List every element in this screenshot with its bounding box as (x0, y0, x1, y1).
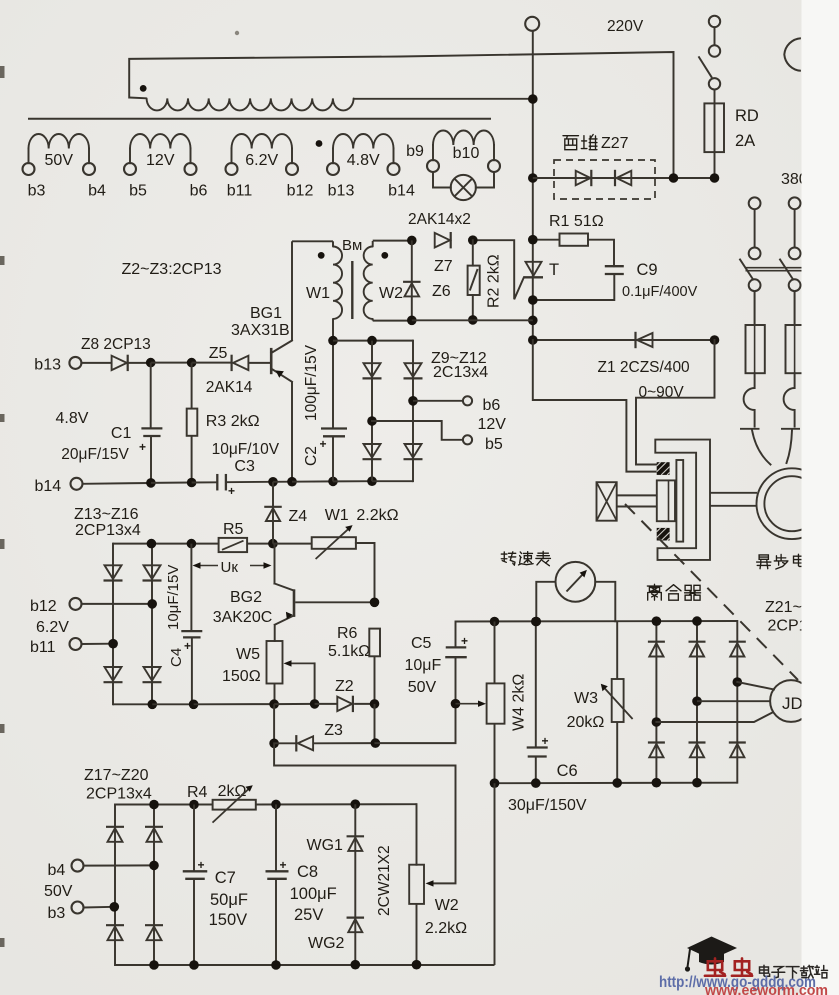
svg-text:+: + (542, 734, 549, 748)
wire clutch supply B (636, 340, 715, 465)
wire field bottom rail (495, 782, 738, 785)
node C5/W4 wiper (451, 699, 461, 709)
svg-text:+: + (184, 639, 191, 653)
power transformer B primary winding (129, 52, 673, 176)
right margin (802, 0, 839, 995)
motor lead curves (752, 430, 771, 465)
svg-text:+: + (228, 484, 235, 498)
wire base row (151, 362, 192, 364)
svg-text:2AK14x2: 2AK14x2 (408, 211, 471, 228)
fuse RD 2A (714, 90, 716, 179)
wire long vertical to bottom rail (494, 783, 496, 965)
motor lead bars (740, 428, 760, 430)
svg-text:20μF/15V: 20μF/15V (61, 446, 129, 463)
node W5 bottom (269, 699, 279, 709)
svg-text:150Ω: 150Ω (222, 668, 261, 685)
220V supply terminal (525, 17, 539, 31)
svg-text:W1: W1 (306, 285, 330, 302)
svg-text:BG2: BG2 (230, 589, 262, 606)
node R3 top (187, 358, 197, 368)
svg-text:10μF/10V: 10μF/10V (212, 441, 280, 458)
svg-text:b4: b4 (48, 862, 66, 879)
node W5 wiper return (310, 699, 320, 709)
svg-text:b11: b11 (30, 639, 56, 656)
node Z6 bottom (407, 316, 417, 326)
svg-text:W4 2kΩ: W4 2kΩ (511, 674, 528, 731)
pilot lamp (433, 172, 451, 188)
svg-text:b6: b6 (483, 397, 501, 414)
node Z27 right junction (669, 173, 679, 183)
capacitor C2 100uF/15V (332, 341, 334, 429)
capacitor C7 50uF/150V (193, 805, 195, 872)
wire bottom top rail (115, 804, 213, 806)
svg-text:2.2kΩ: 2.2kΩ (425, 920, 467, 937)
svg-text:Z4: Z4 (289, 508, 308, 525)
diode Z5 2AK14 (points left) (231, 355, 233, 371)
wire regulator bottom rail (113, 703, 152, 705)
svg-text:b6: b6 (190, 183, 208, 200)
wire to b6 (413, 400, 463, 402)
node Z2 cathode / R6 bottom (370, 699, 380, 709)
transformer core (28, 118, 491, 120)
svg-text:2.2kΩ: 2.2kΩ (356, 507, 398, 524)
BG2 base wire (295, 601, 374, 603)
node R5 right / Z4 bottom (268, 539, 278, 549)
rectifier Z13-Z16 left column (112, 544, 114, 705)
rectifier Z21 column 3 (736, 621, 738, 783)
diode Z8 (points right) (81, 362, 111, 364)
node Z1 right on fuse line (710, 335, 720, 345)
rectifier Z9-Z12 right column (412, 341, 414, 482)
svg-text:b5: b5 (485, 436, 503, 453)
clutch inner plate (676, 460, 683, 542)
svg-text:Z2~Z3:2CP13: Z2~Z3:2CP13 (122, 261, 222, 278)
mains switch K (709, 16, 720, 27)
node meter left (532, 617, 542, 627)
svg-text:b14: b14 (388, 183, 415, 200)
wire 220V vertical main line (532, 31, 534, 340)
thyristor T (526, 262, 542, 276)
svg-text:0.1μF/400V: 0.1μF/400V (622, 284, 698, 300)
svg-text:Uк: Uк (221, 559, 239, 576)
capacitor C6 30uF/150V (535, 622, 537, 748)
svg-text:C4: C4 (168, 648, 185, 667)
svg-text:4.8V: 4.8V (347, 152, 380, 169)
rectifier Z21 column 2 (696, 621, 698, 783)
label 异步电(动机) (757, 555, 771, 569)
svg-text:b10: b10 (453, 145, 480, 162)
svg-text:+: + (280, 858, 287, 872)
asynchronous motor (double circle) (757, 468, 828, 539)
rectifier Z13-Z16 right column (151, 544, 153, 705)
node bridge left top (367, 336, 377, 346)
svg-text:12V: 12V (478, 416, 507, 433)
node Z4 top (268, 477, 278, 487)
zener WG1 (points up) (354, 804, 356, 965)
svg-text:C6: C6 (557, 762, 578, 780)
svg-text:2CP13x4: 2CP13x4 (75, 522, 141, 539)
svg-text:50μF: 50μF (210, 891, 248, 909)
node fuse junction (710, 173, 720, 183)
watermark 虫虫 red (705, 958, 725, 975)
secondary winding 4.8V (b13-b14) (327, 163, 339, 175)
wire Z3 row to C5 column (375, 704, 455, 743)
watermark 电子下载站 (760, 965, 770, 976)
primary phase dot (140, 85, 147, 92)
svg-text:4.8V: 4.8V (56, 410, 89, 427)
svg-text:WG1: WG1 (307, 837, 344, 854)
svg-text:b4: b4 (88, 183, 106, 200)
oscillator transformer core (351, 261, 353, 319)
svg-text:Z21~: Z21~ (765, 599, 802, 616)
svg-text:50V: 50V (44, 883, 73, 900)
svg-text:T: T (549, 261, 559, 279)
svg-text:25V: 25V (294, 906, 323, 924)
capacitor C5 10uF 50V (455, 657, 457, 704)
svg-text:Z2: Z2 (335, 678, 354, 695)
wire bridge top rail to R5 (113, 543, 219, 545)
rectifier Z17-Z20 left column (114, 805, 116, 966)
clutch outer bracket (655, 440, 710, 560)
svg-text:C5: C5 (411, 635, 432, 652)
motor JD circle (770, 680, 812, 722)
svg-text:R4: R4 (187, 784, 208, 801)
svg-text:2kΩ: 2kΩ (218, 783, 247, 800)
zener Z4 (points up) (272, 482, 274, 544)
clutch armature block (657, 480, 675, 521)
indicator circle cut at margin (784, 38, 801, 71)
svg-text:b12: b12 (30, 598, 57, 615)
svg-text:+: + (198, 858, 205, 872)
wire meter top rail (456, 620, 738, 623)
node 12V ac right (408, 396, 418, 406)
svg-text:C3: C3 (234, 458, 255, 475)
motor shaft (710, 492, 757, 494)
selenium stack Z27 dashed box (554, 160, 655, 199)
secondary winding b10 with pilot lamp (427, 160, 439, 172)
svg-text:b11: b11 (227, 183, 253, 200)
wire bridge top rail (333, 340, 413, 342)
resistor R3 2kΩ (191, 363, 193, 409)
svg-text:2CP13x4: 2CP13x4 (86, 786, 152, 803)
watermark graduation cap logo (687, 937, 737, 960)
svg-text:JD: JD (782, 694, 803, 713)
svg-text:2CW21X2: 2CW21X2 (376, 845, 393, 916)
svg-text:b3: b3 (28, 183, 46, 200)
svg-text:Z17~Z20: Z17~Z20 (84, 767, 149, 784)
svg-text:b3: b3 (48, 905, 66, 922)
node Z3 right (371, 738, 381, 748)
node b11 junction (108, 639, 118, 649)
Z27 diode left (points right) (576, 171, 591, 185)
svg-text:W1: W1 (325, 507, 349, 524)
svg-text:2C13x4: 2C13x4 (433, 364, 488, 381)
svg-text:150V: 150V (209, 911, 248, 929)
svg-text:Z1 2CZS/400: Z1 2CZS/400 (598, 359, 691, 376)
svg-text:2AK14: 2AK14 (206, 379, 253, 396)
tach generator box (597, 482, 617, 521)
node C8 top (271, 800, 281, 810)
BG1 collector wire down (291, 382, 293, 482)
node col B top (147, 539, 157, 549)
svg-text:Z13~Z16: Z13~Z16 (74, 506, 139, 523)
wire wiper feedback to W2 (274, 743, 455, 883)
Z27 diode right (points left) (614, 170, 616, 186)
node W4 top (490, 617, 500, 627)
node C2 bottom (328, 477, 338, 487)
svg-text:RD: RD (735, 107, 759, 125)
node b4 junction (149, 861, 159, 871)
winding W2 (364, 247, 373, 319)
svg-text:C2: C2 (303, 446, 320, 466)
node BG2 base / R6 top (370, 598, 380, 608)
svg-text:R5: R5 (223, 521, 244, 538)
svg-text:b5: b5 (129, 183, 147, 200)
node b12 junction (147, 599, 157, 609)
node W4 bottom (490, 778, 500, 788)
contactor linkage (746, 267, 805, 269)
clutch brush upper (657, 462, 670, 475)
svg-text:BG1: BG1 (250, 305, 282, 322)
node WG1 top (351, 799, 361, 809)
svg-text:b12: b12 (287, 183, 314, 200)
svg-text:12V: 12V (146, 152, 175, 169)
svg-text:b13: b13 (34, 357, 61, 374)
node W3 bottom (612, 778, 622, 788)
capacitor C9 0.1uF/400V (605, 265, 624, 267)
contactor pole 1 with fuse and thermal element (749, 197, 761, 209)
label 离合器 (647, 584, 661, 600)
wire down to Z3 row (273, 704, 275, 743)
svg-text:R3 2kΩ: R3 2kΩ (206, 413, 260, 430)
svg-text:W2: W2 (435, 897, 459, 914)
node bridge left bottom (367, 476, 377, 486)
capacitor C8 100uF/25V (275, 804, 277, 871)
node BG1 collector rail (287, 477, 297, 487)
capacitor C3 (series) (216, 474, 218, 491)
potentiometer W4 2kΩ (494, 622, 496, 684)
svg-text:W5: W5 (236, 646, 260, 663)
svg-text:30μF/150V: 30μF/150V (508, 797, 587, 814)
svg-text:b13: b13 (328, 183, 355, 200)
svg-text:www.eeworm.com: www.eeworm.com (704, 983, 828, 995)
node W2 return (528, 316, 538, 326)
svg-text:Z27: Z27 (601, 135, 629, 152)
secondary winding 6.2V (b11-b12) (226, 163, 238, 175)
diode Z1 2CZS/400 (points left) (533, 339, 715, 341)
svg-text:10μF/15V: 10μF/15V (165, 565, 182, 630)
svg-text:Z7: Z7 (434, 258, 453, 275)
svg-text:C8: C8 (297, 863, 318, 881)
svg-text:Z5: Z5 (209, 345, 228, 362)
node C4 top (187, 539, 197, 549)
svg-text:Z3: Z3 (324, 722, 343, 739)
svg-text:R1 51Ω: R1 51Ω (549, 213, 604, 230)
svg-text:W2: W2 (379, 285, 403, 302)
wires to JD motor (737, 682, 774, 690)
node rectifier bottoms (652, 778, 662, 788)
node b3 junction (110, 902, 120, 912)
rectifier Z21 column 1 (655, 621, 657, 783)
svg-text:5.1kΩ: 5.1kΩ (328, 643, 370, 660)
svg-text:220V: 220V (607, 18, 644, 35)
annotation Uk arrows (199, 565, 218, 567)
svg-text:Z6: Z6 (432, 283, 451, 300)
mechanical coupling dashed line (625, 504, 798, 680)
thyristor gate wire (473, 240, 524, 299)
node Z7 cathode / R2 top (468, 235, 478, 245)
tachometer meter 转速表 (501, 552, 515, 565)
node T cathode (528, 295, 538, 305)
potentiometer W2 2.2kΩ (416, 804, 418, 865)
svg-text:R6: R6 (337, 625, 358, 642)
svg-text:50V: 50V (408, 679, 437, 696)
capacitor C1 20uF/15V (150, 363, 152, 429)
resistor R2 2kΩ (472, 240, 474, 265)
svg-text:R2 2kΩ: R2 2kΩ (486, 254, 503, 308)
node C2 top (328, 336, 338, 346)
svg-text:b14: b14 (35, 478, 62, 495)
svg-text:3AX31B: 3AX31B (231, 322, 290, 339)
svg-text:+: + (320, 437, 327, 451)
node primary-end junction (528, 94, 538, 104)
svg-text:W3: W3 (574, 690, 598, 707)
label 硒堆 Z27 (563, 136, 579, 150)
svg-text:C9: C9 (637, 261, 658, 279)
secondary winding 12V (b5-b6) (124, 163, 136, 175)
svg-text:C1: C1 (111, 425, 132, 442)
rectifier Z17-Z20 right column (153, 805, 155, 966)
node C6 bottom (531, 778, 541, 788)
svg-text:+: + (461, 634, 468, 648)
svg-text:WG2: WG2 (308, 935, 345, 952)
rectifier Z9-Z12 left column (371, 341, 373, 482)
node Z27 left junction (528, 173, 538, 183)
resistor R1 51Ω (533, 239, 560, 241)
wire clutch supply A (533, 340, 656, 472)
svg-text:6.2V: 6.2V (245, 152, 278, 169)
terminal b5 (463, 435, 472, 444)
svg-text:C7: C7 (215, 869, 236, 887)
zener Z6 (points up) (411, 240, 413, 320)
shaft tach to clutch (617, 494, 657, 496)
node Z8 out (146, 358, 156, 368)
wire b14 rail (83, 482, 151, 485)
diode Z7 (points right) (435, 233, 450, 248)
svg-text:Z8 2CP13: Z8 2CP13 (81, 336, 151, 353)
diode Z2 (points right) (337, 697, 352, 711)
svg-text:100μF/15V: 100μF/15V (303, 344, 320, 421)
svg-text:3AK20C: 3AK20C (213, 609, 273, 626)
node 12V ac left (367, 416, 377, 426)
diode Z3 (points left) (274, 742, 296, 744)
terminal b6 (463, 396, 472, 405)
svg-text:2A: 2A (735, 132, 755, 150)
svg-text:20kΩ: 20kΩ (567, 714, 605, 731)
scan edge marks (0, 66, 5, 78)
clutch brush lower (657, 528, 670, 541)
svg-text:100μF: 100μF (290, 885, 337, 903)
secondary winding 50V (b3-b4) (23, 163, 35, 175)
zener WG2 (points up) (347, 916, 365, 918)
svg-text:b9: b9 (406, 143, 424, 160)
node C4 bottom (189, 700, 199, 710)
wire W2 bottom row (412, 319, 533, 321)
node Z1 left (528, 335, 538, 345)
svg-text:6.2V: 6.2V (36, 619, 69, 636)
svg-text:50V: 50V (45, 152, 74, 169)
wire to b5 (372, 421, 463, 440)
node Z7 anode (407, 236, 417, 246)
winding W1 (292, 240, 333, 242)
svg-text:+: + (139, 440, 146, 454)
wire Z27 row (533, 177, 715, 179)
svg-text:10μF: 10μF (405, 657, 442, 674)
node R2 bottom (468, 315, 478, 325)
capacitor C4 10uF/15V (190, 544, 192, 632)
wire bottom rail (115, 964, 495, 966)
contactor pole 2 with fuse and thermal element (789, 197, 801, 209)
node R1 left (528, 235, 538, 245)
svg-text:Bм: Bм (342, 237, 362, 254)
